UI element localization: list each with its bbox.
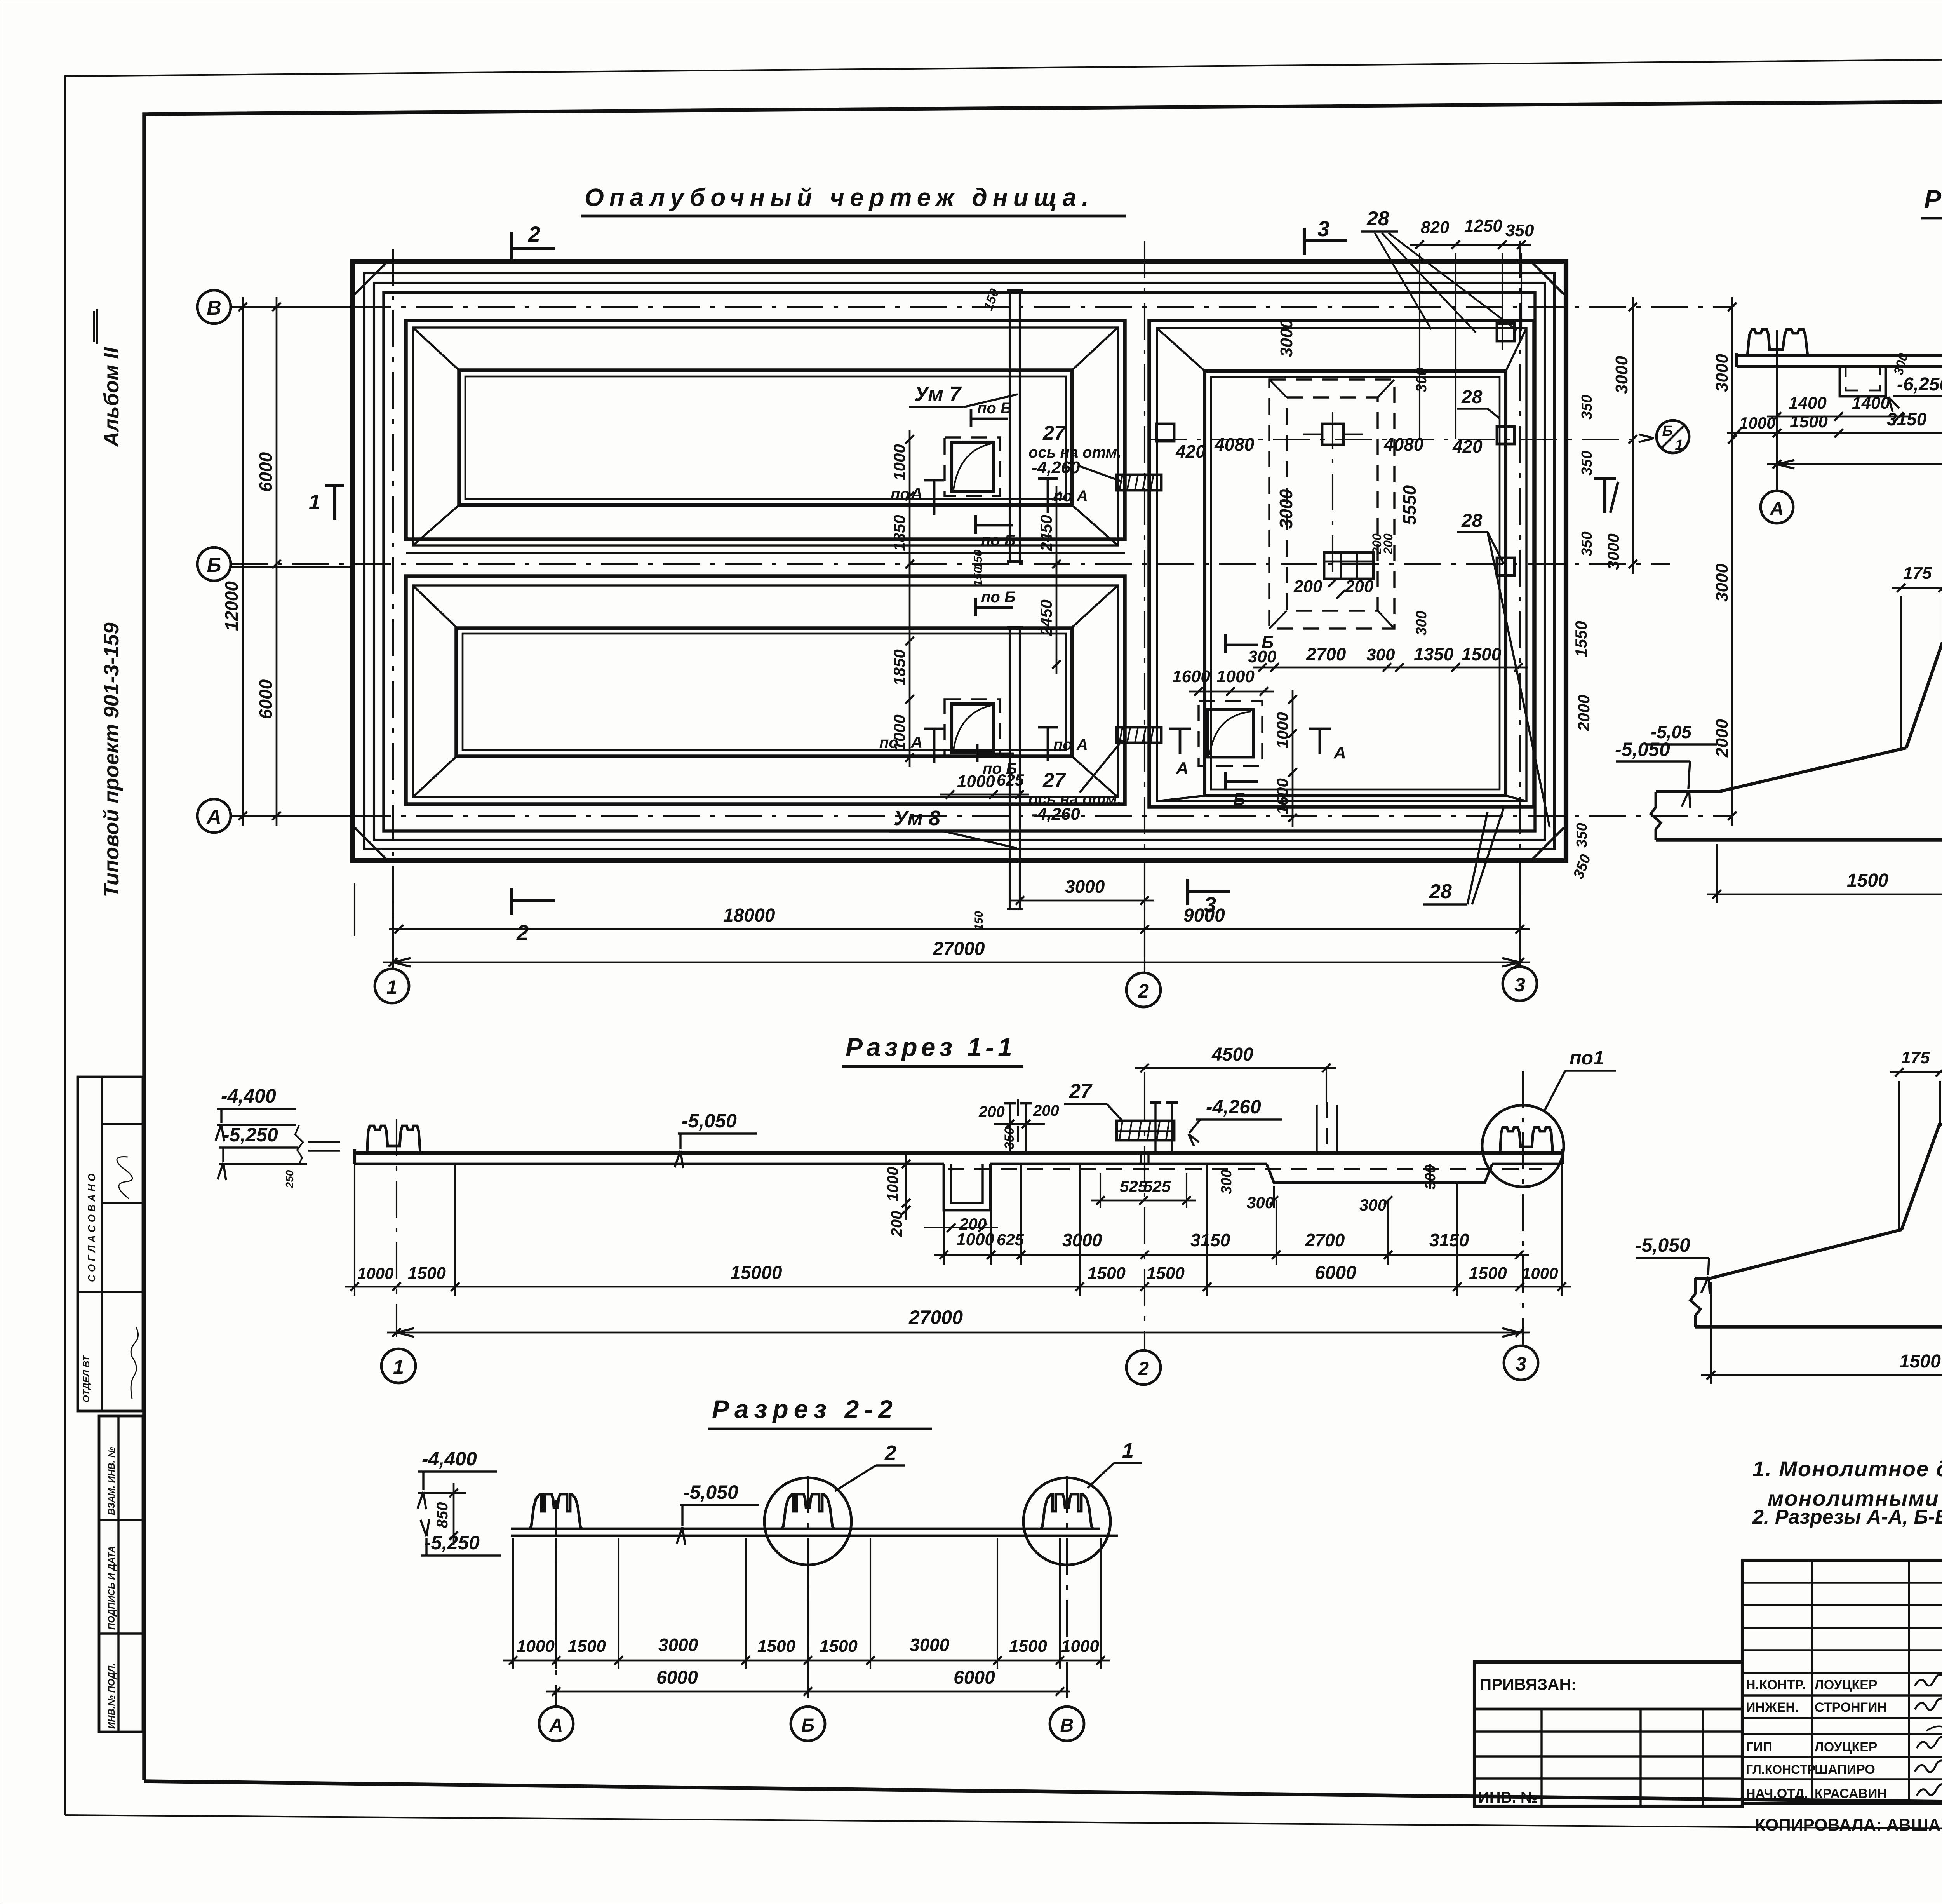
section 1-1 dim 27000: [387, 1332, 1530, 1334]
svg-text:по Б: по Б: [981, 532, 1015, 549]
svg-text:250: 250: [284, 1170, 296, 1188]
svg-text:А: А: [1770, 498, 1784, 519]
svg-text:300: 300: [1413, 368, 1430, 392]
svg-text:3150: 3150: [1190, 1230, 1230, 1250]
svg-text:1: 1: [1122, 1439, 1134, 1462]
grid 3 axis in section 1-1: [1522, 1071, 1524, 1345]
svg-text:150: 150: [981, 287, 1002, 312]
svg-text:4080: 4080: [1383, 434, 1424, 455]
grid axes dashdot s2-2: [555, 1500, 557, 1705]
svg-text:по1: по1: [1570, 1047, 1604, 1069]
dim 1000/625 below lower pit square: [940, 794, 1029, 796]
svg-text:1000: 1000: [1061, 1637, 1099, 1656]
svg-text:А: А: [1176, 759, 1189, 778]
detail-Б left slope and edge: [1695, 1230, 1902, 1278]
svg-text:1600: 1600: [1172, 667, 1210, 686]
po1 detail circle: [1482, 1105, 1564, 1187]
svg-text:3150: 3150: [1429, 1230, 1469, 1250]
section mark A right of small pit: [1319, 729, 1321, 754]
plan corner chamfers: [355, 263, 386, 294]
lower pit inner offset line: [413, 585, 1118, 797]
svg-text:175: 175: [1901, 1048, 1930, 1067]
svg-text:Типовой проект 901-3-159: Типовой проект 901-3-159: [100, 622, 123, 897]
grid line 1 vertical: [392, 249, 394, 963]
svg-text:1350: 1350: [1414, 644, 1454, 664]
svg-text:1000: 1000: [1739, 414, 1775, 432]
svg-text:1000: 1000: [357, 1264, 393, 1282]
grid bubble B: [197, 290, 231, 324]
grid 1 axis in section 1-1: [396, 1119, 397, 1337]
svg-text:Разрез 2-2: Разрез 2-2: [712, 1395, 898, 1423]
top right dims 820/1250/350: [1410, 244, 1531, 246]
section 2-2 dim row 1: [503, 1660, 1110, 1662]
svg-text:ВЗАМ. ИНВ. №: ВЗАМ. ИНВ. №: [106, 1447, 117, 1515]
small pit dashed rectangle: [1199, 701, 1262, 766]
po B mark upper-2: [974, 515, 977, 534]
plan outer formwork rectangle: [353, 261, 1566, 861]
svg-text:В: В: [207, 297, 221, 319]
upper pit floor rectangle: [459, 370, 1072, 505]
left stamp column lower box: [99, 1416, 143, 1732]
right basin floor inner line: [1211, 377, 1500, 789]
svg-text:12000: 12000: [221, 581, 242, 631]
svg-text:200: 200: [1293, 577, 1323, 596]
dim 2450 upper: [1056, 486, 1058, 574]
grid circle Б s2-2: [791, 1707, 825, 1741]
po B mark lower-2: [976, 744, 979, 762]
svg-text:-5,050: -5,050: [1615, 739, 1670, 760]
svg-text:ШАПИРО: ШАПИРО: [1815, 1762, 1875, 1777]
detail-3 extension verticals: [1900, 596, 1902, 748]
detail circle 1 around В bump: [1023, 1478, 1110, 1565]
grid circle 3 plan: [1503, 967, 1537, 1001]
svg-text:300: 300: [1366, 645, 1395, 664]
svg-text:3000: 3000: [658, 1635, 698, 1655]
po B mark upper-1: [970, 409, 973, 427]
upper column base dashed square: [945, 437, 1000, 496]
svg-text:ИНВ. №: ИНВ. №: [1478, 1789, 1538, 1806]
grid bubble Б/1: [1657, 420, 1689, 453]
svg-text:200: 200: [978, 1103, 1005, 1120]
section 3-3 axis A vertical: [1776, 330, 1778, 439]
section mark 2 top: [510, 232, 513, 260]
svg-text:1500: 1500: [1469, 1264, 1507, 1283]
section 1-1 sump pit: [944, 1164, 990, 1210]
section 1-1 left wall bumps: [367, 1126, 420, 1153]
small pit rotated dims 1000/1600: [1292, 690, 1294, 827]
zigzag break marks s1-1: [295, 1125, 303, 1164]
mid wall lines between pits: [406, 552, 1125, 554]
section 2-2 wall bump at В: [1041, 1494, 1093, 1529]
detail-Б bottom slab line: [1695, 1325, 1942, 1329]
column stub at Um wall: [1009, 1103, 1011, 1153]
svg-text:1500: 1500: [1847, 870, 1888, 891]
svg-text:Б: Б: [1262, 633, 1274, 652]
svg-text:350: 350: [1579, 395, 1595, 419]
svg-text:КРАСАВИН: КРАСАВИН: [1815, 1786, 1887, 1801]
svg-text:1500: 1500: [568, 1637, 606, 1656]
Um7 monolithic strip: [1010, 291, 1020, 561]
svg-text:625: 625: [997, 771, 1024, 789]
detail-Б extension verticals: [1898, 1081, 1900, 1230]
svg-text:6000: 6000: [656, 1667, 698, 1688]
svg-text:27: 27: [1042, 422, 1066, 444]
lower pit corner bevels: [413, 585, 456, 627]
small pit dims 1600/1000: [1189, 691, 1274, 693]
svg-text:200: 200: [1381, 533, 1395, 555]
svg-text:ИНЖЕН.: ИНЖЕН.: [1746, 1700, 1799, 1715]
section 2-2 extension lines: [512, 1538, 514, 1669]
lower pit floor rectangle: [456, 628, 1072, 756]
svg-text:КОПИРОВАЛА: АВШАРОВА: КОПИРОВАЛА: АВШАРОВА: [1755, 1815, 1942, 1834]
detail-Б left hump: [1902, 1125, 1942, 1230]
svg-text:1500: 1500: [820, 1637, 858, 1656]
section 2-2 wall bump at A: [530, 1494, 582, 1529]
svg-text:СТРОНГИН: СТРОНГИН: [1815, 1700, 1887, 1715]
svg-text:ЛОУЦКЕР: ЛОУЦКЕР: [1815, 1740, 1878, 1754]
svg-text:Б: Б: [801, 1715, 814, 1736]
svg-text:2000: 2000: [1575, 695, 1593, 731]
svg-text:150: 150: [972, 567, 985, 586]
svg-text:1600: 1600: [1273, 778, 1291, 814]
section mark 1 left: [325, 484, 344, 487]
svg-text:Альбом II: Альбом II: [100, 347, 123, 448]
svg-text:1000: 1000: [1522, 1264, 1558, 1282]
svg-text:1000: 1000: [517, 1637, 555, 1656]
svg-text:1000: 1000: [884, 1167, 901, 1202]
basin dashed pit bevels: [1269, 380, 1287, 397]
svg-text:1500: 1500: [1009, 1637, 1047, 1656]
plan left dimension 12000: [242, 297, 244, 826]
svg-text:350: 350: [1579, 531, 1595, 556]
svg-text:28: 28: [1461, 387, 1483, 408]
upper pit corner bevels: [413, 327, 459, 370]
section 3-3 dim row 1400/1400: [1767, 416, 1909, 418]
svg-text:3000: 3000: [1612, 356, 1631, 394]
svg-text:по А: по А: [1053, 488, 1088, 505]
lower pit outer edge: [406, 576, 1125, 804]
grid line Б/1 horizontal: [1150, 439, 1649, 440]
section 3-3 dim 12000: [1767, 463, 1942, 465]
svg-text:1850: 1850: [890, 649, 908, 685]
svg-text:15000: 15000: [730, 1263, 782, 1283]
svg-text:2450: 2450: [1037, 515, 1055, 551]
svg-text:420: 420: [1175, 441, 1206, 462]
svg-text:ЛОУЦКЕР: ЛОУЦКЕР: [1815, 1678, 1878, 1692]
detail-3 top dimension chain 175/200/245/245/200/175: [1892, 587, 1942, 589]
section 1-1 dim row 2: [345, 1286, 1571, 1288]
plan left extension lines: [231, 306, 353, 308]
basin dashed pit inner: [1287, 397, 1378, 611]
signature squiggles: [1915, 1674, 1942, 1686]
dim 4500 s1-1: [1135, 1067, 1336, 1069]
po A mark upper-right: [1038, 477, 1058, 480]
section 2-2 dim row 6000/6000: [546, 1691, 1070, 1693]
right margin dim line: [1632, 297, 1634, 574]
svg-text:350: 350: [1570, 852, 1594, 881]
svg-text:3000: 3000: [910, 1635, 950, 1655]
grid line B horizontal: [231, 306, 1732, 308]
svg-text:1400: 1400: [1789, 394, 1827, 413]
plan bottom extension lines: [354, 883, 355, 936]
svg-text:4500: 4500: [1211, 1044, 1253, 1065]
svg-text:3000: 3000: [1062, 1230, 1102, 1250]
section mark 3 top: [1303, 228, 1306, 255]
grid line 2 vertical: [1144, 241, 1145, 970]
svg-text:28: 28: [1366, 207, 1389, 230]
grid circle 2 s1-1: [1126, 1350, 1161, 1385]
svg-text:3000: 3000: [1712, 564, 1731, 602]
svg-text:ПРИВЯЗАН:: ПРИВЯЗАН:: [1480, 1675, 1577, 1693]
section 1-1 deck top line: [355, 1151, 1562, 1155]
grid 2 axis in section 1-1: [1144, 1084, 1145, 1350]
svg-text:3000: 3000: [1604, 533, 1622, 570]
section 1-1 right end: [1561, 1149, 1564, 1164]
svg-text:1: 1: [393, 1356, 404, 1378]
svg-text:1500: 1500: [1147, 1264, 1185, 1283]
grid circle В s2-2: [1050, 1707, 1084, 1741]
section 3-3 left edge: [1735, 353, 1738, 367]
svg-text:2700: 2700: [1305, 1230, 1345, 1250]
plan wall band line 3: [374, 283, 1545, 840]
svg-text:по А: по А: [1053, 736, 1088, 753]
svg-text:3000: 3000: [1065, 876, 1105, 897]
svg-text:28: 28: [1461, 510, 1483, 531]
far right rotated dims 3000/3000: [1731, 297, 1733, 826]
svg-text:по Б: по Б: [977, 400, 1011, 417]
section 3-3 left wall bumps: [1747, 329, 1808, 355]
svg-text:-5,050: -5,050: [683, 1481, 738, 1503]
plan wall band line 4: [384, 293, 1535, 831]
svg-text:1000: 1000: [957, 772, 995, 791]
svg-text:625: 625: [997, 1230, 1024, 1249]
svg-text:-4,400: -4,400: [422, 1448, 477, 1470]
svg-text:1850: 1850: [890, 515, 908, 551]
svg-text:6000: 6000: [954, 1667, 995, 1688]
svg-text:НАЧ.ОТД.: НАЧ.ОТД.: [1746, 1786, 1808, 1801]
svg-text:-6,250: -6,250: [1897, 374, 1942, 395]
grid circle A section 3-3: [1776, 433, 1778, 490]
section 3-3 deck top line: [1737, 354, 1942, 357]
left wall anchor square: [1156, 424, 1174, 441]
grid circle 2 plan: [1126, 973, 1161, 1007]
section mark 2 bottom: [510, 888, 513, 915]
svg-text:525: 525: [1143, 1177, 1171, 1195]
svg-text:Ум 8: Ум 8: [894, 807, 940, 830]
section 2-2 wall bump at Б: [782, 1494, 834, 1529]
basin column square upper: [1322, 424, 1343, 445]
anchor element 27 lower: [1117, 727, 1161, 743]
svg-text:850: 850: [434, 1502, 451, 1528]
grid bubble A: [197, 799, 231, 833]
svg-text:-4,400: -4,400: [221, 1085, 276, 1107]
svg-text:1000: 1000: [890, 714, 908, 751]
section 3-3 pit: [1840, 367, 1886, 396]
right basin inner offset line: [1157, 328, 1526, 801]
svg-text:Н.КОНТР.: Н.КОНТР.: [1746, 1678, 1806, 1692]
svg-text:3000: 3000: [1277, 319, 1296, 357]
upper column base inner square: [952, 442, 994, 491]
section 3-3 deck bottom line: [1737, 365, 1942, 368]
section 1-1 dashed line: [948, 1168, 1542, 1170]
detail circle 2 around Б bump: [764, 1478, 851, 1565]
grid line A horizontal: [231, 815, 1732, 817]
svg-text:-5,250: -5,250: [223, 1124, 278, 1146]
svg-text:-4,260: -4,260: [1206, 1096, 1261, 1118]
svg-text:А: А: [1333, 743, 1346, 762]
svg-text:С О Г Л А С О В А Н О: С О Г Л А С О В А Н О: [86, 1174, 97, 1282]
svg-text:1: 1: [309, 490, 320, 514]
detail-3 left hump: [1906, 643, 1942, 748]
svg-text:1000: 1000: [890, 444, 908, 480]
svg-text:В: В: [1060, 1715, 1074, 1736]
anchor 27 assembly on deck: [1117, 1121, 1174, 1140]
svg-text:-5,250: -5,250: [425, 1532, 480, 1554]
svg-text:-5,050: -5,050: [682, 1110, 737, 1132]
svg-text:1500: 1500: [408, 1264, 446, 1283]
po B mark lower-1: [974, 598, 977, 616]
grid circle A s2-2: [539, 1707, 573, 1741]
column stub at grid 2: [1154, 1103, 1156, 1153]
svg-text:420: 420: [1452, 436, 1483, 456]
svg-text:300: 300: [1359, 1196, 1387, 1214]
svg-text:2450: 2450: [1037, 599, 1055, 636]
svg-text:2: 2: [1138, 1358, 1149, 1380]
left stamp column upper box: [78, 1077, 143, 1411]
svg-text:200: 200: [1033, 1102, 1059, 1119]
anchor element 27 upper: [1117, 475, 1161, 490]
grid circle 1 plan: [375, 969, 409, 1003]
section 1-1 left edge: [353, 1149, 356, 1164]
svg-text:6000: 6000: [1315, 1263, 1356, 1283]
svg-text:9000: 9000: [1183, 905, 1225, 926]
svg-text:ГЛ.КОНСТР: ГЛ.КОНСТР: [1746, 1763, 1815, 1777]
svg-text:1500: 1500: [1088, 1264, 1126, 1283]
Um8 monolithic strip: [1010, 627, 1020, 909]
detail-Б top dimension chain: [1890, 1071, 1942, 1073]
svg-text:4080: 4080: [1214, 434, 1255, 455]
svg-text:300: 300: [1413, 611, 1430, 635]
svg-text:2000: 2000: [1712, 719, 1731, 758]
svg-text:2: 2: [516, 920, 529, 945]
svg-text:Ум 7: Ум 7: [914, 382, 962, 406]
section 1-1 deck bottom line: [355, 1163, 944, 1165]
svg-text:300: 300: [1218, 1169, 1235, 1194]
svg-text:6000: 6000: [256, 452, 276, 492]
svg-text:3000: 3000: [1276, 489, 1296, 529]
svg-text:-4,260: -4,260: [1032, 805, 1080, 824]
svg-text:А: А: [910, 733, 922, 751]
section mark Б below small pit: [1224, 772, 1227, 790]
svg-text:27: 27: [1042, 769, 1066, 792]
dim 2450 lower: [1056, 554, 1058, 674]
svg-text:1000: 1000: [956, 1230, 994, 1249]
grid bubble Б: [197, 547, 231, 581]
column at grid B tall: [1316, 1105, 1317, 1153]
svg-text:Б: Б: [1233, 790, 1245, 809]
svg-text:А: А: [206, 806, 221, 828]
title block: privyazan box: [1474, 1662, 1742, 1806]
plan bottom dim 27000: [383, 962, 1530, 963]
right basin axis cross vertical: [1332, 412, 1333, 583]
svg-text:1500: 1500: [1899, 1351, 1941, 1372]
svg-text:1250: 1250: [1464, 216, 1502, 235]
section mark 3 bottom: [1186, 879, 1189, 905]
detail-3 bottom dim 1500/1000: [1707, 894, 1942, 895]
svg-text:2: 2: [528, 222, 540, 246]
svg-text:2: 2: [884, 1441, 896, 1465]
section mark A left of small pit: [1179, 729, 1182, 754]
svg-text:350: 350: [1002, 1127, 1017, 1150]
section mark Б above small pit: [1224, 634, 1227, 653]
svg-text:2700: 2700: [1306, 644, 1346, 664]
upper pit outer edge: [406, 321, 1125, 539]
upper pit vertical dims 1000/1850: [909, 430, 911, 574]
detail-Б bottom dim 1500/1500: [1701, 1374, 1942, 1376]
svg-text:ПОДПИСЬ И ДАТА: ПОДПИСЬ И ДАТА: [106, 1546, 117, 1630]
plan left dimension 6000/6000: [276, 297, 278, 826]
lower pit floor inner line: [463, 634, 1066, 750]
svg-text:1550: 1550: [1572, 621, 1590, 657]
svg-text:-4,260: -4,260: [1032, 458, 1080, 477]
grid circle 3 s1-1: [1504, 1346, 1538, 1380]
svg-text:820: 820: [1421, 218, 1450, 237]
plan wall band line 2: [364, 273, 1554, 849]
detail-3 bottom slab line: [1656, 838, 1942, 842]
upper pit floor inner line: [465, 376, 1066, 499]
svg-text:1000: 1000: [1216, 667, 1255, 686]
svg-text:Б: Б: [1662, 423, 1673, 439]
svg-text:3: 3: [1516, 1353, 1526, 1375]
section 2-2 deck bottom line: [511, 1535, 1118, 1537]
section 1-1 extension lines: [354, 1164, 355, 1296]
section 1-1 recess: [1267, 1164, 1492, 1183]
lower column base dashed square: [945, 699, 1000, 757]
svg-text:3000: 3000: [1712, 354, 1731, 392]
svg-text:1: 1: [1675, 437, 1683, 453]
svg-text:3150: 3150: [1887, 409, 1927, 429]
wall anchor square mid: [1497, 427, 1514, 444]
upper pit inner offset line: [413, 327, 1118, 545]
svg-text:1500: 1500: [1790, 412, 1828, 431]
section 2-2 deck top line: [511, 1528, 1100, 1530]
svg-text:2: 2: [1138, 980, 1149, 1002]
basin column box lower: [1324, 552, 1373, 579]
grid line 3 vertical: [1519, 241, 1521, 963]
lower column base inner square: [952, 704, 994, 752]
svg-text:27000: 27000: [908, 1306, 963, 1328]
svg-text:28: 28: [1429, 880, 1452, 903]
svg-text:1500: 1500: [757, 1637, 795, 1656]
section 1-1 dim row 1: [1011, 1254, 1529, 1256]
title block: central personnel table: [1742, 1560, 1942, 1803]
svg-text:1: 1: [386, 976, 397, 998]
small pit solid rectangle: [1208, 709, 1253, 757]
svg-text:по Б: по Б: [981, 589, 1015, 606]
svg-text:1500: 1500: [1462, 644, 1502, 664]
grid line Б horizontal: [231, 563, 1670, 565]
section 3-3 main dim chain: [1727, 432, 1942, 434]
right basin floor rectangle: [1205, 371, 1506, 796]
svg-text:5550: 5550: [1399, 485, 1420, 525]
basin bottom dim chain 300/2700/300/1350/1500: [1253, 667, 1528, 669]
stamp signature squiggle: [106, 1154, 142, 1199]
svg-text:18000: 18000: [723, 905, 775, 926]
svg-text:1400: 1400: [1852, 394, 1890, 413]
right basin corner bevels: [1157, 328, 1205, 371]
svg-text:ГИП: ГИП: [1746, 1740, 1772, 1754]
svg-text:350: 350: [1579, 451, 1595, 475]
